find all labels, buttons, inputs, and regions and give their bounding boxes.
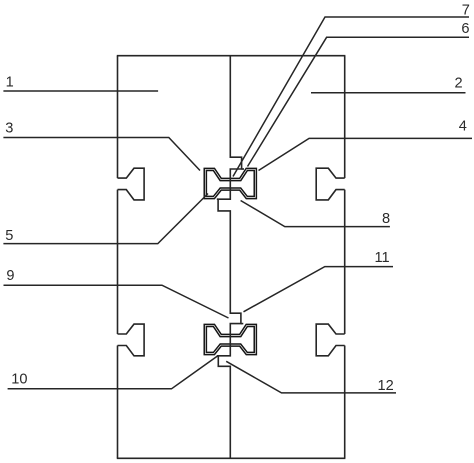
svg-text:8: 8 [382, 211, 390, 227]
svg-text:1: 1 [6, 75, 14, 91]
outer plate left edge segment c [117, 346, 119, 459]
svg-text:7: 7 [462, 3, 470, 19]
leader line 5 [3, 194, 208, 244]
leader line 12 [226, 361, 396, 393]
outer plate right edge segment a [344, 56, 346, 178]
outer plate outline top edge [117, 55, 346, 57]
dovetail notch lower left [118, 324, 145, 356]
leader line 8 [241, 201, 390, 227]
svg-text:10: 10 [11, 372, 27, 388]
leader line 6 [248, 37, 470, 166]
seam spur lower bowtie [241, 323, 243, 325]
outer plate outline bottom edge [117, 457, 346, 459]
leader line 2 [311, 92, 466, 94]
svg-text:2: 2 [455, 76, 463, 92]
svg-text:3: 3 [5, 121, 13, 137]
leader line 1 [3, 90, 158, 92]
dovetail notch lower right [316, 324, 345, 356]
svg-text:11: 11 [375, 250, 390, 266]
seam spur lower bowtie lower left [217, 355, 219, 357]
svg-text:6: 6 [461, 21, 469, 37]
leader line 9 [4, 285, 229, 318]
svg-text:5: 5 [5, 228, 13, 244]
svg-text:12: 12 [378, 378, 394, 394]
leader line 11 [244, 267, 394, 312]
outer plate right edge segment b [344, 190, 346, 334]
specimen cavity upper (bowtie) [204, 168, 256, 198]
leader line 7 [233, 17, 469, 177]
svg-text:9: 9 [6, 268, 14, 284]
seam spur upper bowtie [242, 168, 244, 170]
outer plate left edge segment b [117, 190, 119, 334]
leader line 10 [8, 356, 218, 389]
dovetail notch upper right [316, 168, 345, 200]
leader line 3 [3, 138, 200, 171]
specimen cavity lower (bowtie) [204, 324, 256, 354]
outer plate left edge segment a [117, 56, 119, 178]
leader line 4 [259, 138, 473, 170]
seam line upper segment [218, 56, 242, 459]
seam spur upper bowtie lower left [217, 198, 218, 200]
dovetail notch upper left [118, 168, 145, 200]
svg-text:4: 4 [459, 119, 467, 135]
outer plate right edge segment c [344, 346, 346, 459]
